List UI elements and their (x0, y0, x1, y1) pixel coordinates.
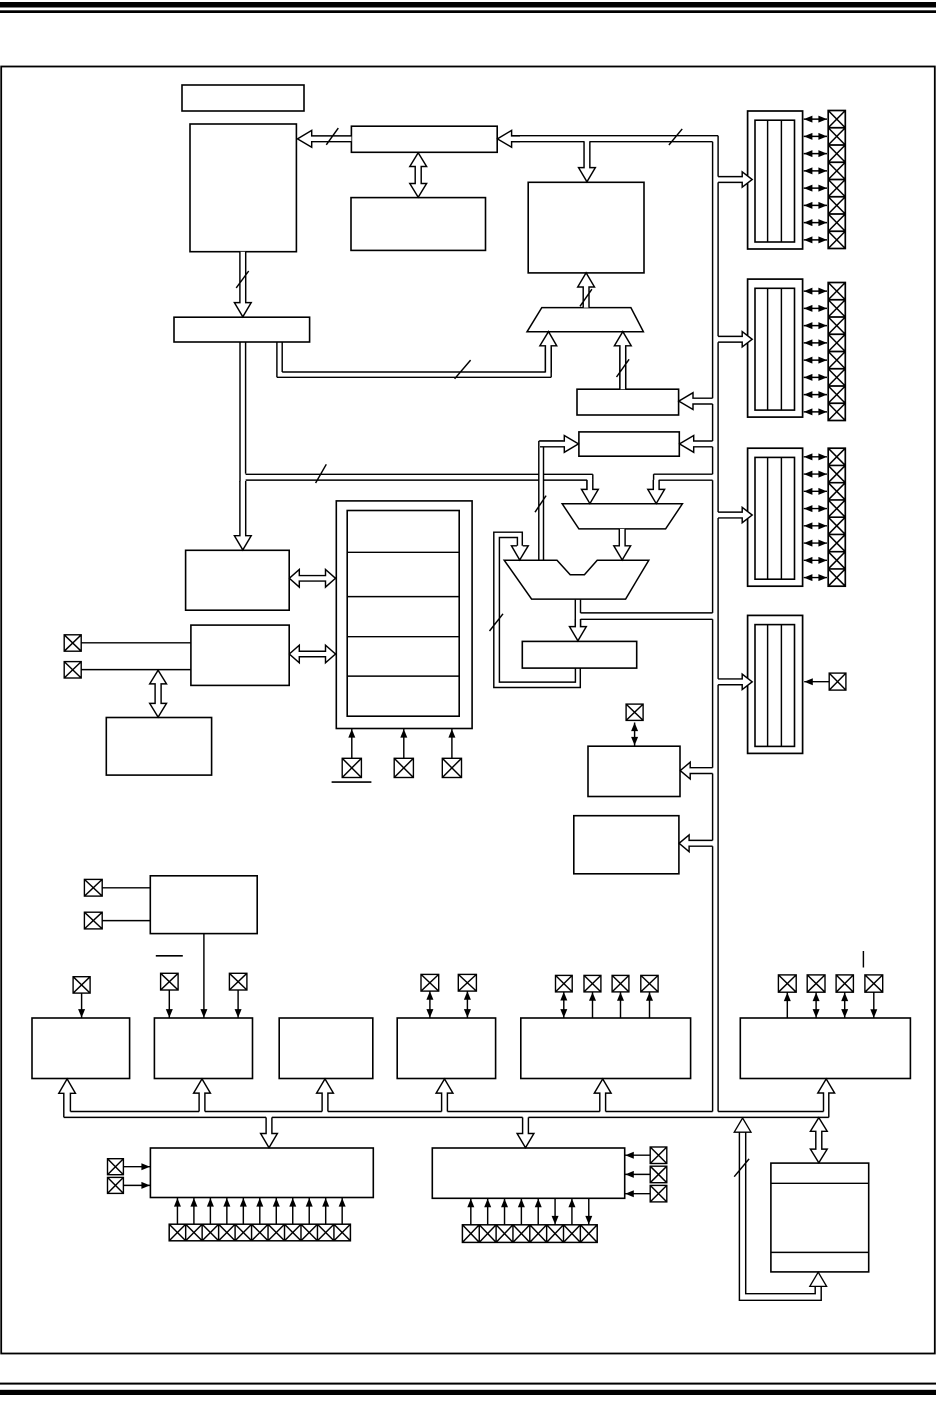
block 10-bit ADC (397, 1018, 495, 1079)
block AUSART (432, 1148, 624, 1198)
block Synchronous Serial Port (150, 1148, 373, 1198)
arrow address-mux output into ALU (614, 529, 631, 560)
block PORTA outer (748, 111, 803, 249)
PORTC latch divider 2 (780, 457, 782, 579)
arrow Flash to Program Counter (13) (234, 252, 251, 317)
block Timer0 (32, 1018, 130, 1079)
pin SDI xbox (108, 1177, 124, 1193)
block PORTA inner latch (755, 120, 795, 242)
pin VSS xbox (442, 758, 461, 777)
block 8-Level Stack (351, 198, 486, 251)
bus width slash FSR mux (617, 359, 630, 377)
pin TX xbox (650, 1147, 667, 1164)
block FSR reg bar (577, 389, 679, 415)
ALU (notched trapezoid) (504, 560, 649, 599)
pin VDD xbox (394, 758, 413, 777)
bus width slash direct addr (316, 464, 327, 483)
wire OSC2 to timing generation (81, 669, 191, 671)
wire CLKO double arrow (634, 723, 636, 746)
arrow bus up into CCP block (818, 1079, 835, 1118)
arrow bus up into ADC (436, 1079, 453, 1112)
block PORTC inner latch (755, 457, 795, 579)
arrow instruction fetch into Instruction Register (497, 130, 520, 147)
SSP pin row (169, 1224, 350, 1241)
arrow data bus to PORTB (718, 332, 752, 347)
wire VSS arrow (451, 729, 453, 758)
wire MCLR arrow (351, 729, 353, 758)
arrow into status reg left (540, 436, 579, 453)
pin CMP B xbox (584, 975, 601, 992)
PORTE pin RE3 xbox (829, 673, 846, 690)
divider row2 (347, 596, 459, 598)
bottom heavy rule (0, 1390, 936, 1395)
arrow data bus into address-mux right input (648, 480, 665, 504)
bus width slash band gap path (734, 1159, 749, 1177)
block device title box (182, 85, 304, 111)
PORTA latch divider 2 (780, 120, 782, 242)
wire VDD arrow (403, 729, 405, 758)
wire SCK arrow (123, 1166, 150, 1168)
block Timer2 (279, 1018, 373, 1079)
PORTE latch divider 2 (780, 625, 782, 747)
wire CMP C arrow up (620, 992, 622, 1018)
pin CMP A xbox (556, 975, 573, 992)
arrow pc-mux output up into RAM (578, 273, 595, 308)
wire OSC1 to timing generation (81, 642, 191, 644)
divider row3 (347, 636, 459, 638)
PORTE pin wire (804, 681, 829, 683)
arrow W reg into ALU left input (511, 546, 528, 560)
wire ALU area to status reg (vertical pair crossing pair A) (538, 441, 540, 560)
bus peripheral data bus (bottom horizontal pair) (70, 1111, 199, 1113)
pin AN1 xbox (458, 974, 476, 991)
AUSART pin row (462, 1225, 597, 1243)
block Timer1 (154, 1018, 252, 1079)
arrow bus down into SSP (261, 1117, 278, 1147)
pin T1OSI xbox (84, 912, 102, 929)
pin T1OSO xbox (84, 879, 102, 896)
block Internal Oscillator Block (106, 718, 211, 776)
wire AN1 double arrow (466, 991, 468, 1018)
mux program-counter (trapezoid) (527, 308, 643, 332)
bus width slash flash fetch (326, 128, 338, 145)
arrow pc bus into pc-mux left input (540, 332, 557, 373)
PORTE latch divider 1 (767, 625, 769, 747)
pin CCP3 xbox (836, 975, 853, 992)
T1 label underline mark (156, 955, 183, 957)
wire CCP4 arrow down (873, 992, 875, 1018)
wire CK arrow (625, 1193, 650, 1195)
arrow RAM addr into RAM file registers (579, 141, 596, 182)
block system control outer frame (336, 501, 472, 729)
MCLR overline mark (332, 781, 372, 783)
block PORTE outer (748, 615, 803, 753)
arrow U-path up into band gap box (810, 1272, 827, 1286)
block Program Counter bar (174, 317, 310, 342)
wire ALU output to W reg and data bus (574, 600, 576, 627)
block Instruction Register bar (351, 126, 497, 152)
PORTB latch divider 2 (780, 288, 782, 410)
arrow data bus into right control box 2 (679, 835, 713, 852)
PORTC latch divider 1 (767, 457, 769, 579)
block W reg (522, 641, 636, 668)
pin CMP C xbox (612, 975, 629, 992)
wire RX arrow (625, 1173, 650, 1175)
bus width slash 13 PC (236, 271, 249, 288)
wire T1CKI arrow (168, 990, 170, 1018)
top heavy rule (0, 2, 936, 8)
arrow data bus into right control box 1 (680, 762, 712, 779)
tick mark above CCP4 (862, 951, 864, 968)
band gap divider upper (771, 1182, 869, 1184)
wire CCP2 double arrow (815, 993, 817, 1018)
PORTB pin column (828, 283, 845, 421)
top thin rule (0, 10, 936, 13)
block right lower control (574, 816, 679, 874)
pin CK xbox (650, 1185, 667, 1202)
pin RX xbox (650, 1166, 667, 1183)
wire CMP B arrow up (592, 992, 594, 1018)
PORTA pin column (828, 111, 845, 249)
PORTA latch divider 1 (767, 120, 769, 242)
arrow program bus into decode block (234, 481, 251, 550)
block PORTE inner latch (755, 625, 795, 747)
wire PC to mux (jog + horizontal pair) (276, 342, 278, 377)
arrow bus up into comparators (594, 1079, 611, 1112)
block Status reg bar (579, 432, 679, 456)
block band gap reference (771, 1163, 869, 1272)
arrow program memory read into Flash box (298, 130, 352, 147)
bus main data bus vertical pair (712, 142, 714, 399)
block Flash Program Memory (190, 124, 296, 252)
pin SCK xbox (108, 1159, 124, 1175)
wire RAM address branch down to RAM file registers (583, 142, 585, 168)
pin AN0 xbox (421, 974, 439, 991)
divider row1 (347, 551, 459, 553)
arrow ALU result into W reg (570, 619, 587, 641)
block CCP modules (740, 1018, 910, 1079)
divider row4 (347, 675, 459, 677)
pin CLKO xbox (626, 704, 643, 720)
arrow data bus to PORTE (718, 674, 752, 689)
pin CCP1 xbox (778, 975, 796, 992)
block T1 oscillator (150, 876, 257, 934)
pin T0CKI xbox (73, 977, 90, 993)
wire t1 osc down to Timer1 (203, 934, 205, 1018)
wire T1OSO to t1 osc (102, 887, 150, 889)
bus width slash pc to mux (455, 360, 471, 379)
wire CCP1 arrow up (786, 993, 788, 1019)
block Timing Generation (191, 625, 289, 685)
wire direct address bus (pair A) (246, 473, 539, 475)
wire mux-address right input from data bus (654, 473, 713, 475)
wire AN0 double arrow (429, 991, 431, 1018)
bus width slash W feedback (490, 614, 504, 631)
block PORTB inner latch (755, 288, 795, 410)
block PORTB outer (748, 279, 803, 417)
pin CCP2 xbox (807, 975, 825, 992)
block RAM File Registers (528, 182, 644, 273)
double arrow bus to band gap box (810, 1118, 827, 1163)
PORTC pin column (828, 448, 845, 586)
bottom thin rule (0, 1383, 936, 1385)
pin CCP4 xbox (865, 975, 883, 992)
arrow data bus to PORTA (718, 172, 752, 187)
wire SDI arrow (123, 1184, 150, 1186)
wire W reg feedback loop to ALU (499, 538, 575, 683)
pin OSC1 xbox (64, 635, 81, 651)
pin MCLR xbox (342, 758, 361, 777)
wire T0CKI arrow (81, 993, 83, 1018)
arrow U-path up into bus (734, 1118, 751, 1132)
arrow direct addr into address-mux left input (582, 480, 599, 504)
pin OSC2 xbox (64, 662, 81, 678)
wire CMP D arrow up (649, 992, 651, 1018)
bus program data from PC bar to decode (vertical pair) (239, 342, 241, 482)
arrow FSR into pc-mux right input (614, 332, 631, 390)
arrow bus up into Timer0 (59, 1079, 76, 1118)
wire band gap U-path with arrows (739, 1132, 821, 1300)
bus width slash ram addr out (580, 289, 592, 306)
band gap divider lower (771, 1251, 869, 1253)
block Instruction Decode and Control (186, 550, 290, 610)
arrow bus down into AUSART (517, 1117, 534, 1147)
block Comparators (521, 1018, 691, 1079)
PORTB latch divider 1 (767, 288, 769, 410)
wire T1G arrow (237, 990, 239, 1018)
arrow bus up into Timer2 (317, 1079, 334, 1112)
arrow data bus into FSR right (679, 393, 713, 410)
pin CMP D xbox (641, 975, 658, 992)
AUSART pin arrows (470, 1199, 472, 1225)
SSP pin arrows (176, 1198, 178, 1224)
wire T1OSI to t1 osc (102, 920, 150, 922)
arrow bus up into Timer1 (194, 1079, 211, 1112)
block system control inner list (347, 511, 459, 717)
block Timing/OSC control right upper (588, 746, 680, 796)
bus instruction fetch horizontal shaft (top) (512, 135, 718, 137)
wire CMP A double arrow (563, 992, 565, 1018)
pin T1CKI xbox (161, 973, 179, 990)
arrow data bus to PORTC (718, 507, 752, 522)
wire FSR to pc-mux (vertical pair) (619, 348, 621, 390)
bus width slash alu-status (535, 496, 546, 513)
pin T1G xbox (229, 973, 247, 990)
wire CCP3 double arrow (844, 993, 846, 1018)
double arrow osc line to internal oscillator (150, 670, 167, 717)
double arrow instruction reg to stack (410, 153, 427, 197)
block PORTC outer (748, 448, 803, 586)
mux address (trapezoid) (562, 504, 682, 529)
arrow data bus into status reg right (680, 436, 713, 453)
bus width slash instruction bus (669, 129, 682, 145)
wire TX arrow (625, 1154, 650, 1156)
